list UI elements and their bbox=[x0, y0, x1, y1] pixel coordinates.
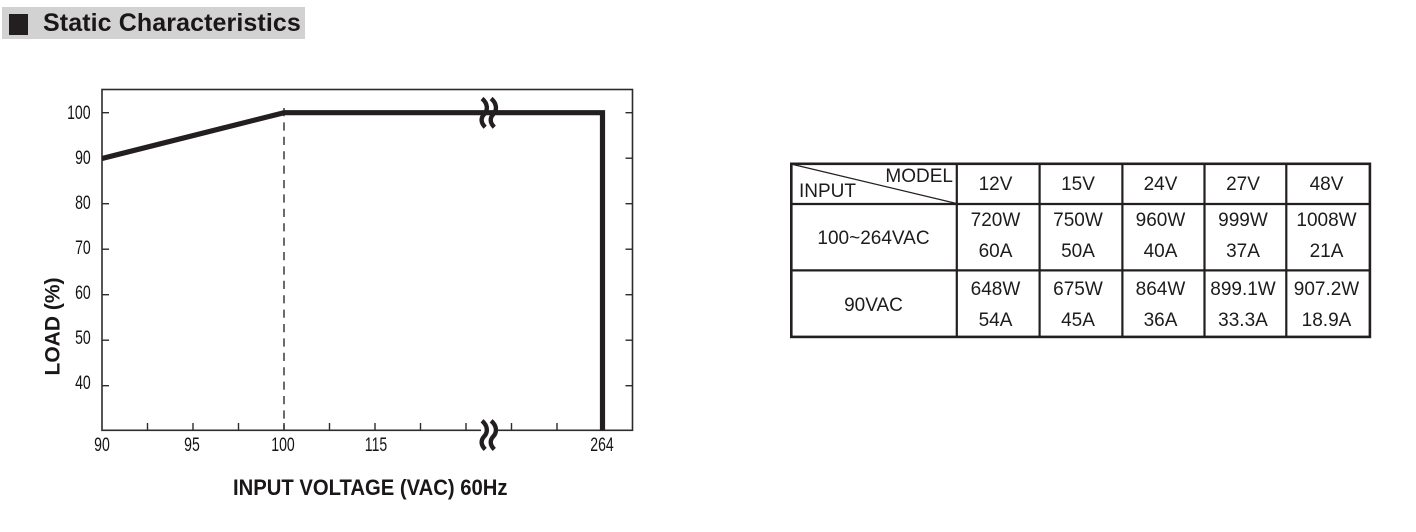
y-axis ticks left bbox=[102, 113, 109, 386]
row 90VAC cell 12V bbox=[957, 275, 1034, 336]
row header 90VAC bbox=[790, 296, 957, 315]
column header 12V bbox=[957, 175, 1034, 194]
table header INPUT bbox=[799, 182, 856, 201]
row 100~264VAC cell 12V bbox=[957, 206, 1034, 267]
header black square bullet bbox=[9, 14, 28, 35]
table outer border bbox=[791, 164, 1370, 337]
y tick label 70 bbox=[75, 239, 91, 259]
column header 48V bbox=[1287, 175, 1366, 194]
axis break squiggle (bottom axis) bbox=[482, 421, 496, 450]
y tick label 50 bbox=[75, 329, 91, 349]
header title text bbox=[43, 11, 301, 36]
x tick label 95 bbox=[174, 436, 210, 456]
y tick label 100 bbox=[67, 104, 90, 124]
column header 27V bbox=[1205, 175, 1281, 194]
y-axis ticks right bbox=[626, 113, 633, 386]
load curve polyline bbox=[102, 113, 603, 430]
table linework SVG bbox=[780, 150, 1416, 350]
axis break gap on bottom axis bbox=[481, 426, 494, 434]
header diagonal line bbox=[792, 164, 956, 203]
row 90VAC cell 27V bbox=[1205, 275, 1281, 336]
row 100~264VAC cell 48V bbox=[1287, 206, 1366, 267]
row 90VAC cell 24V bbox=[1122, 275, 1199, 336]
column header 15V bbox=[1040, 175, 1116, 194]
row 100~264VAC cell 27V bbox=[1205, 206, 1281, 267]
row 90VAC cell 48V bbox=[1287, 275, 1366, 336]
chart linework SVG bbox=[0, 0, 700, 532]
row 100~264VAC cell 24V bbox=[1122, 206, 1199, 267]
x axis title INPUT VOLTAGE (VAC) 60Hz bbox=[233, 477, 508, 500]
y axis title LOAD (%) bbox=[43, 267, 64, 387]
chart plot border bbox=[102, 90, 633, 431]
axis break squiggle (curve, at 100% line) bbox=[482, 99, 496, 128]
dashed guide line at 100VAC bbox=[283, 108, 285, 430]
column header 24V bbox=[1122, 175, 1199, 194]
table horizontal grid lines bbox=[791, 204, 1371, 270]
row header 100~264VAC bbox=[790, 229, 957, 248]
table header MODEL bbox=[885, 167, 953, 186]
x-axis ticks bottom bbox=[148, 423, 558, 430]
table vertical grid lines bbox=[957, 164, 1287, 337]
x tick label 100 bbox=[265, 436, 301, 456]
y tick label 40 bbox=[75, 374, 91, 394]
section header bar bbox=[2, 7, 305, 39]
row 90VAC cell 15V bbox=[1040, 275, 1116, 336]
x tick label 115 bbox=[358, 436, 394, 456]
y tick label 60 bbox=[75, 284, 91, 304]
y tick label 80 bbox=[75, 194, 91, 214]
x tick label 90 bbox=[84, 436, 120, 456]
row 100~264VAC cell 15V bbox=[1040, 206, 1116, 267]
y tick label 90 bbox=[75, 149, 91, 169]
x tick label 264 bbox=[584, 436, 620, 456]
